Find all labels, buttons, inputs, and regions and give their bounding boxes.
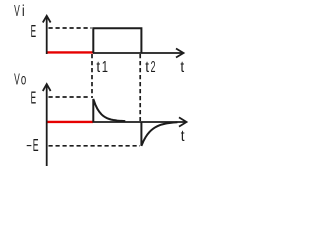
svg-text:E: E [31, 88, 36, 107]
svg-text:−: − [26, 136, 32, 154]
svg-text:t: t [181, 128, 186, 145]
svg-text:o: o [21, 70, 26, 88]
svg-text:E: E [31, 21, 36, 40]
svg-text:t: t [180, 59, 185, 76]
svg-text:t: t [145, 59, 150, 76]
svg-text:2: 2 [151, 57, 156, 76]
svg-text:E: E [33, 135, 39, 155]
svg-text:1: 1 [102, 57, 108, 76]
svg-text:V: V [14, 1, 20, 20]
svg-text:i: i [22, 3, 25, 21]
svg-text:V: V [14, 70, 20, 89]
svg-text:t: t [96, 59, 101, 76]
